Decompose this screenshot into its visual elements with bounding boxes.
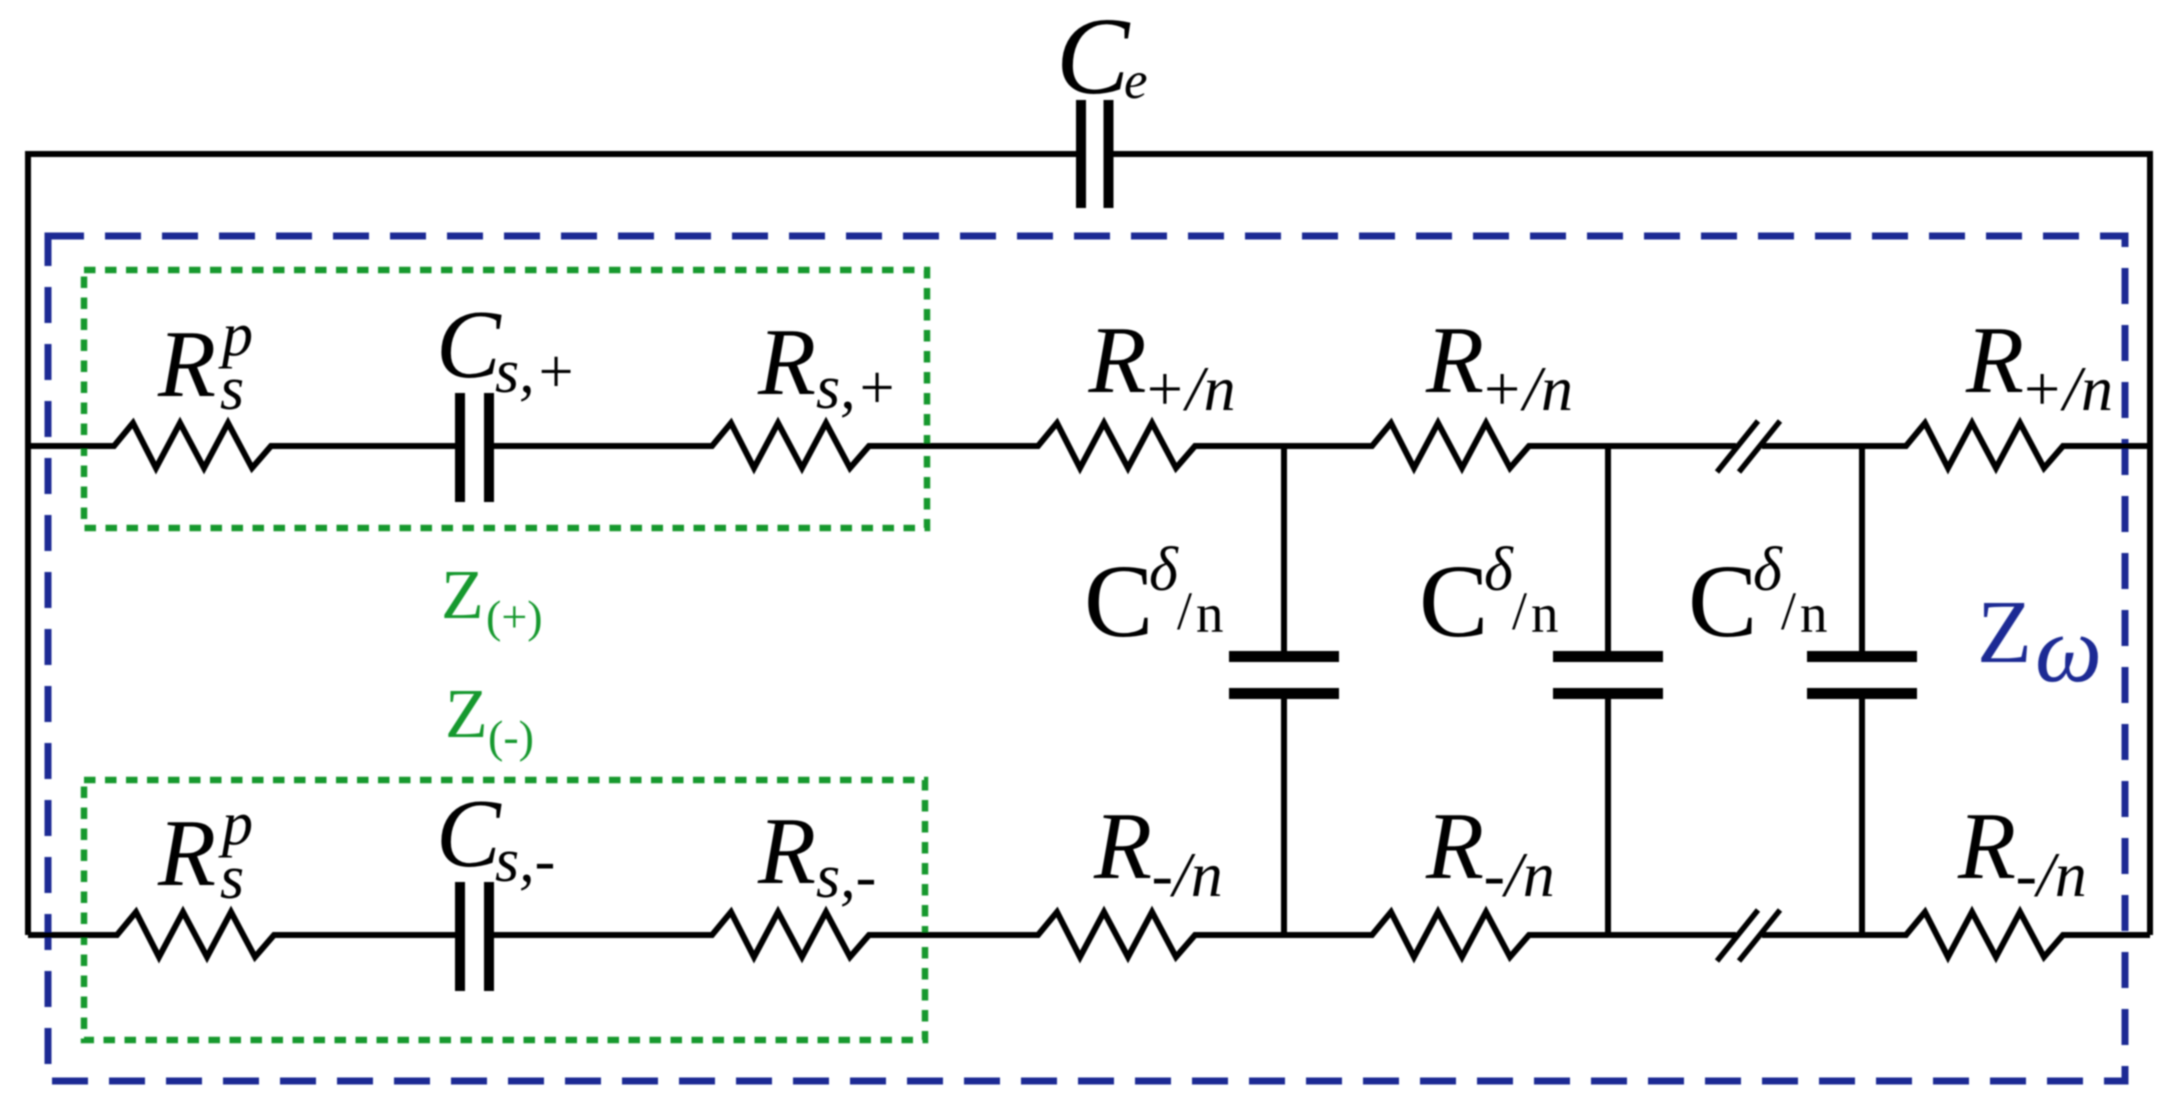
svg-text:/: / (1781, 581, 1796, 641)
svg-text:+/n: +/n (2020, 353, 2113, 424)
dashed box Z_omega boundary (48, 236, 2125, 1081)
capacitor Cs,+ (455, 393, 465, 502)
svg-text:R: R (157, 311, 216, 417)
svg-text:C: C (1056, 0, 1131, 117)
svg-text:R: R (157, 800, 216, 906)
resistor Rs^p top + wire (28, 423, 456, 468)
svg-text:R: R (1093, 793, 1152, 899)
svg-text:e: e (1124, 52, 1148, 110)
svg-text:R: R (757, 309, 816, 415)
svg-text:Z: Z (445, 676, 488, 753)
svg-text:/: / (1512, 581, 1527, 641)
wire outer loop (28, 154, 2150, 935)
wire break top // (1717, 421, 1758, 472)
resistor R+/n 3 + wire (1762, 423, 2150, 468)
svg-text:C: C (1688, 544, 1757, 659)
svg-text:R: R (1425, 793, 1484, 899)
wire break bottom // (1717, 910, 1758, 961)
capacitor C^delta/n #3 branch (1859, 444, 1865, 652)
svg-text:C: C (436, 780, 502, 887)
svg-text:-/n: -/n (2016, 839, 2087, 910)
resistor Rs^p bottom + wire (28, 912, 456, 957)
svg-text:s,-: s,- (495, 827, 555, 895)
svg-text:δ: δ (1753, 536, 1783, 604)
svg-text:C: C (436, 291, 502, 398)
svg-text:R: R (1088, 307, 1147, 413)
svg-text:R: R (1957, 793, 2016, 899)
dotted box Z_(+) boundary (84, 270, 927, 528)
svg-text:-/n: -/n (1484, 839, 1555, 910)
capacitor Ce (1076, 100, 1086, 208)
svg-text:s: s (220, 355, 244, 423)
svg-text:s,+: s,+ (495, 338, 576, 406)
svg-text:C: C (1419, 544, 1488, 659)
capacitor C^delta/n #1 branch (1281, 444, 1287, 652)
svg-text:δ: δ (1484, 536, 1514, 604)
svg-text:+/n: +/n (1143, 353, 1236, 424)
resistors Rs,- R-/n 1, R-/n 2 + wire (493, 912, 1736, 957)
svg-text:/: / (1177, 581, 1192, 641)
svg-text:Z: Z (1977, 583, 2032, 682)
svg-text:R: R (1425, 307, 1484, 413)
dotted box Z_(-) boundary (84, 780, 925, 1040)
resistors Rs,+ R+/n 1, R+/n 2 + wire (493, 423, 1736, 468)
svg-text:C: C (1084, 544, 1153, 659)
svg-text:ω: ω (2035, 596, 2102, 702)
svg-text:-/n: -/n (1152, 839, 1223, 910)
svg-text:δ: δ (1149, 536, 1179, 604)
svg-text:s,+: s,+ (816, 354, 897, 422)
svg-text:R: R (1965, 307, 2024, 413)
svg-text:(+): (+) (486, 591, 543, 642)
capacitor C^delta/n #2 branch (1605, 444, 1611, 652)
svg-text:Z: Z (441, 557, 484, 634)
resistor R-/n 3 + wire (1762, 912, 2150, 957)
svg-text:s: s (220, 844, 244, 912)
svg-text:s,-: s,- (816, 843, 876, 911)
svg-text:(-): (-) (488, 711, 534, 762)
svg-text:n: n (1196, 583, 1224, 644)
svg-text:R: R (757, 798, 816, 904)
capacitor Cs,- (455, 882, 465, 991)
svg-text:+/n: +/n (1480, 353, 1573, 424)
svg-text:n: n (1800, 583, 1828, 644)
svg-text:n: n (1531, 583, 1559, 644)
